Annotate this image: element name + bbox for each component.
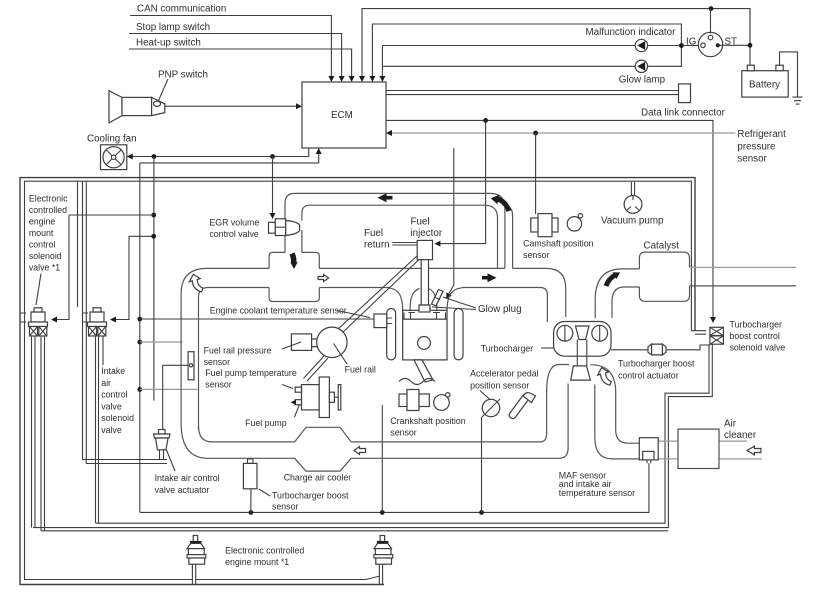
svg-text:Turbocharger: Turbocharger <box>730 319 783 329</box>
svg-text:Intake air control: Intake air control <box>155 473 220 483</box>
turbocharger <box>554 322 611 381</box>
black arrow left on top duct <box>378 193 393 202</box>
MAF to air cleaner duct <box>658 441 678 459</box>
svg-text:Fuel rail pressure: Fuel rail pressure <box>204 345 272 355</box>
leader PNP <box>159 79 169 101</box>
EGR volume control valve symbol <box>269 219 300 236</box>
main duct bottom line <box>208 288 547 323</box>
turbo boost control actuator <box>611 345 710 350</box>
wire heat-up to ECM <box>129 49 352 78</box>
camshaft position sensor <box>531 214 583 237</box>
crankshaft position sensor <box>399 390 450 411</box>
svg-text:Turbocharger boost: Turbocharger boost <box>272 491 349 501</box>
arrow into valve 2 <box>114 236 154 319</box>
svg-text:control: control <box>101 390 127 400</box>
svg-text:Turbocharger: Turbocharger <box>481 343 534 353</box>
glow lamp <box>635 60 647 72</box>
accelerator pedal position sensor <box>482 393 536 419</box>
svg-text:controlled: controlled <box>29 205 67 215</box>
svg-text:Electronic controlled: Electronic controlled <box>225 545 304 555</box>
engine mount solenoid valve 2 <box>83 308 107 336</box>
svg-text:engine: engine <box>29 217 56 227</box>
arrow into valve 1 <box>55 215 69 320</box>
svg-text:Camshaft position: Camshaft position <box>523 238 594 248</box>
EGR top duct upper line <box>285 193 505 268</box>
left duct verticals <box>181 294 198 430</box>
black curved arrow top right <box>497 199 509 211</box>
svg-text:pressure: pressure <box>737 141 776 152</box>
wire coolant sensor <box>140 318 374 320</box>
svg-text:Fuel pump temperature: Fuel pump temperature <box>205 368 297 378</box>
wire accel pedal sensor <box>481 417 483 512</box>
junction dot IG feed <box>679 43 684 48</box>
svg-text:Turbocharger boost: Turbocharger boost <box>618 358 695 368</box>
charge air cooler bump <box>295 427 352 471</box>
wire to EGR valve <box>272 157 274 215</box>
svg-text:Fuel: Fuel <box>364 228 383 239</box>
svg-text:Air: Air <box>724 418 737 429</box>
svg-text:cleaner: cleaner <box>724 430 757 441</box>
svg-text:Glow plug: Glow plug <box>478 304 522 315</box>
svg-text:air: air <box>101 378 111 388</box>
fuel pump assembly <box>291 377 341 418</box>
svg-text:temperature sensor: temperature sensor <box>559 488 635 498</box>
svg-text:Glow lamp: Glow lamp <box>619 75 666 86</box>
wire fuel pump temp sensor <box>140 388 198 390</box>
svg-text:position sensor: position sensor <box>470 380 529 390</box>
wire to fuel injector <box>439 120 486 243</box>
svg-text:boost control: boost control <box>730 331 780 341</box>
open curved arrow left duct <box>189 274 203 292</box>
svg-text:valve: valve <box>101 401 122 411</box>
svg-text:control valve: control valve <box>209 229 258 239</box>
junction dot battery top <box>709 6 714 11</box>
wire PNP to ECM <box>165 105 298 107</box>
fuel line rail to pump <box>304 356 328 382</box>
main wire bus x140 <box>139 163 141 513</box>
turbocharger boost sensor <box>243 463 257 488</box>
black arrow right on duct <box>482 273 497 282</box>
svg-text:Engine coolant temperature sen: Engine coolant temperature sensor <box>210 305 347 315</box>
engine side slot left <box>387 309 396 360</box>
PNP switch symbol <box>109 91 122 123</box>
wire crankshaft sensor <box>381 405 383 512</box>
wire battery line top <box>362 9 750 78</box>
svg-text:Malfunction indicator: Malfunction indicator <box>586 27 677 38</box>
data link connector <box>679 84 691 103</box>
svg-text:Intake: Intake <box>101 366 125 376</box>
open arrow left on lower duct <box>354 447 366 455</box>
bottom rail third line <box>41 530 668 532</box>
svg-text:Fuel: Fuel <box>411 216 430 227</box>
turbo outlet duct to catalyst <box>595 269 639 318</box>
engine mount solenoid valve 1 <box>20 308 48 336</box>
svg-text:sensor: sensor <box>737 154 767 165</box>
svg-text:Vacuum pump: Vacuum pump <box>601 216 664 227</box>
svg-text:Catalyst: Catalyst <box>644 241 680 252</box>
svg-text:Charge air cooler: Charge air cooler <box>284 472 352 482</box>
second box edge / pipe to actuator <box>83 181 168 463</box>
vacuum pipe solenoid to bottom <box>33 344 712 527</box>
black arrow down into mixer <box>292 254 294 265</box>
wire main bus to ECM bottom <box>140 152 319 163</box>
engine mount B <box>374 536 393 585</box>
turbocharger boost control solenoid valve <box>710 327 724 344</box>
wire actuator <box>163 365 188 431</box>
svg-text:solenoid: solenoid <box>101 413 134 423</box>
open arrow right on duct <box>318 275 329 282</box>
svg-text:valve actuator: valve actuator <box>155 485 210 495</box>
open curved arrow turbo riser <box>598 368 612 386</box>
svg-text:Stop lamp switch: Stop lamp switch <box>136 22 210 33</box>
svg-text:injector: injector <box>411 228 443 239</box>
leader to valve 1 <box>36 274 41 306</box>
bell outer-right to MAF top <box>590 365 639 444</box>
leader to valve 2 <box>102 336 104 365</box>
svg-text:sensor: sensor <box>205 380 231 390</box>
malfunction indicator lamp <box>635 39 647 51</box>
engine side slot right <box>454 309 463 360</box>
fuel line rail to injector diagonal <box>337 256 419 335</box>
intake air control valve actuator symbol <box>154 430 171 460</box>
piston rod <box>414 360 433 382</box>
wire cooling fan from ECM <box>131 148 309 157</box>
pipes below valve 1 <box>32 337 45 531</box>
left text box divider <box>77 181 79 307</box>
svg-text:IG: IG <box>686 37 696 48</box>
main duct top line <box>207 268 566 317</box>
exhaust pipe from catalyst <box>690 266 797 268</box>
catalyst body <box>639 252 689 301</box>
fuel return lines <box>392 243 417 246</box>
fuel injector body <box>417 240 432 259</box>
black curved arrow catalyst elbow <box>606 276 615 287</box>
svg-text:valve *1: valve *1 <box>29 263 60 273</box>
svg-text:ECM: ECM <box>331 110 353 121</box>
outer frame <box>20 178 695 585</box>
lower duct top line / bell outer-left <box>212 365 569 442</box>
engine head <box>403 310 447 319</box>
svg-text:CAN communication: CAN communication <box>137 4 226 15</box>
fuel rail pressure sensor <box>291 334 311 351</box>
svg-text:solenoid valve: solenoid valve <box>730 342 786 352</box>
svg-text:sensor: sensor <box>272 502 298 512</box>
engine intake arches <box>388 288 462 312</box>
svg-text:mount: mount <box>29 228 54 238</box>
svg-text:Fuel pump: Fuel pump <box>245 418 287 428</box>
wire valve1 feed <box>69 214 154 216</box>
wire to camshaft sensor <box>535 133 537 214</box>
lower duct bottom line / bell inner-left <box>208 384 568 459</box>
open arrow left air cleaner <box>747 446 761 455</box>
inner frame <box>25 181 692 579</box>
wire ECM to turbo boost solenoid <box>386 120 713 318</box>
connector bar <box>188 352 194 380</box>
air cleaner outlet lines <box>719 441 762 459</box>
pipes below valve 2 <box>96 337 99 524</box>
valves <box>404 313 446 320</box>
engine coolant temperature sensor <box>374 314 387 328</box>
EGR top duct lower line / plenum top <box>302 205 513 268</box>
bottom signal bus <box>140 463 649 512</box>
wire fuel rail pressure sensor <box>140 341 183 343</box>
wire ST to battery <box>720 9 751 66</box>
svg-text:return: return <box>364 239 390 250</box>
svg-text:sensor: sensor <box>390 428 416 438</box>
wire refrigerant pressure sensor <box>390 132 736 134</box>
svg-text:sensor: sensor <box>204 357 230 367</box>
wire malfunction lamp feed <box>382 46 700 79</box>
vacuum pump <box>631 182 634 196</box>
EGR feed pipe <box>285 203 302 252</box>
injector tip <box>419 305 430 312</box>
svg-text:control actuator: control actuator <box>618 370 679 380</box>
svg-text:control: control <box>29 240 55 250</box>
battery <box>742 71 788 97</box>
svg-text:solenoid: solenoid <box>29 251 62 261</box>
glow plug leaders <box>432 297 476 310</box>
engine mount A <box>187 536 206 585</box>
fuel rail circle <box>317 327 347 357</box>
wire to glow plug <box>448 148 454 296</box>
bell inner-right to MAF bottom <box>595 385 640 459</box>
wire IG box line <box>372 24 681 78</box>
ground symbol <box>780 52 803 104</box>
svg-text:EGR volume: EGR volume <box>209 218 259 228</box>
wire stop lamp to ECM <box>129 34 342 79</box>
svg-text:Battery: Battery <box>749 80 780 91</box>
crank wavy line <box>399 379 435 385</box>
ignition switch circle <box>698 32 722 56</box>
glow plug <box>432 290 444 306</box>
svg-text:Heat-up switch: Heat-up switch <box>136 38 201 49</box>
cooling fan symbol <box>101 145 127 170</box>
svg-text:Cooling fan: Cooling fan <box>87 134 137 145</box>
junction dots fan wire <box>152 154 157 159</box>
svg-text:Data link connector: Data link connector <box>641 108 726 119</box>
wire turbo boost sensor <box>250 489 252 513</box>
left duct curve top <box>181 268 208 297</box>
leader actuator <box>167 450 176 471</box>
left duct curve bottom <box>181 423 212 458</box>
wire bus x154 <box>153 157 155 401</box>
svg-text:Crankshaft position: Crankshaft position <box>390 416 465 426</box>
MAF sensor <box>639 438 658 460</box>
svg-text:Refrigerant: Refrigerant <box>737 129 786 140</box>
ECM box <box>302 82 386 148</box>
svg-text:Fuel rail: Fuel rail <box>345 364 376 374</box>
svg-text:Accelerator pedal: Accelerator pedal <box>470 368 539 378</box>
arrows into ECM top <box>328 76 385 82</box>
wire CAN to ECM <box>130 16 331 79</box>
svg-text:sensor: sensor <box>523 250 549 260</box>
svg-text:Electronic: Electronic <box>29 194 68 204</box>
data link connector wires <box>386 91 679 95</box>
frame hook at solenoid valve <box>691 331 706 335</box>
svg-text:valve: valve <box>101 425 122 435</box>
air cleaner <box>678 429 719 468</box>
svg-text:engine mount *1: engine mount *1 <box>225 557 289 567</box>
wire glow lamp feed <box>382 46 681 67</box>
EGR mixer box <box>269 252 319 301</box>
svg-text:PNP switch: PNP switch <box>158 70 208 81</box>
engine cylinder <box>403 319 447 360</box>
